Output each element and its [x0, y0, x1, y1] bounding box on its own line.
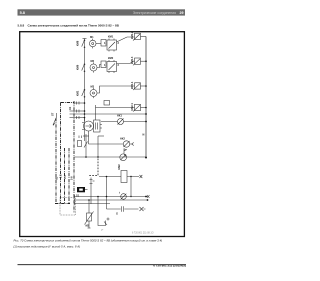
- aux contact K1a: [101, 40, 106, 47]
- svg-text:t: t: [119, 191, 120, 195]
- svg-text:КМ2: КМ2: [76, 90, 80, 96]
- svg-text:29: 29: [180, 11, 184, 15]
- svg-text:М2: М2: [86, 224, 90, 228]
- wire sensor B1: [101, 121, 146, 123]
- node j3: [97, 196, 147, 198]
- svg-text:КМ9: КМ9: [76, 64, 80, 70]
- capacitor box C1: [94, 114, 101, 132]
- aux contact K2a: [101, 61, 106, 68]
- connector frame dotted: [60, 198, 76, 216]
- ground t label: [102, 228, 104, 232]
- svg-text:НК2: НК2: [120, 137, 125, 141]
- svg-text:G: G: [116, 212, 118, 216]
- svg-text:t°: t°: [102, 228, 104, 232]
- wire relay1 to fuse contact: [117, 37, 135, 42]
- contact KM2.1: [133, 104, 141, 111]
- svg-text:НК1: НК1: [117, 114, 122, 118]
- pump M1: [89, 39, 96, 49]
- wire row4: [96, 107, 135, 109]
- wire earth branch: [98, 197, 110, 226]
- wire row3 to contact: [97, 86, 135, 93]
- svg-text:М2: М2: [91, 59, 95, 63]
- svg-text:ST: ST: [51, 112, 55, 116]
- wire contact3 to bus: [141, 85, 147, 87]
- control unit dashed edge: [88, 159, 98, 176]
- wire terminal row y117.5: [70, 116, 85, 119]
- wire v95.5: [95, 105, 97, 114]
- wire bottom row L: [75, 195, 150, 198]
- figure id: [132, 233, 154, 235]
- caption line 1: [13, 238, 163, 248]
- wire capacitor row: [107, 208, 139, 210]
- wire bottom row N2: [75, 202, 111, 205]
- svg-text:КМ1.1: КМ1.1: [130, 81, 134, 89]
- svg-text:3 4: 3 4: [63, 175, 67, 179]
- wire coil row: [99, 175, 142, 209]
- wire contact4 to bus: [141, 107, 147, 109]
- switch external ST: [53, 113, 57, 126]
- varistor RU: [85, 200, 94, 228]
- connector X2 small: [104, 101, 110, 106]
- svg-text:6 720 801 211-08.1O: 6 720 801 211-08.1O: [132, 233, 154, 235]
- svg-text:Схема электрических соединений: Схема электрических соединений котла The…: [28, 24, 120, 28]
- svg-text:6 720 801 211 (2015/02): 6 720 801 211 (2015/02): [153, 263, 186, 267]
- node bus junctions: [145, 60, 147, 158]
- svg-text:N: N: [143, 133, 145, 137]
- wire terminal row y111: [70, 110, 85, 113]
- switch QM2 row2: [82, 64, 85, 72]
- svg-text:КМ2: КМ2: [117, 164, 121, 170]
- wire main left vertical bus: [83, 39, 87, 142]
- svg-text:X1: X1: [68, 106, 72, 110]
- node j1: [85, 156, 99, 158]
- svg-text:КМ2: КМ2: [108, 56, 114, 60]
- wire contact2 to bus: [141, 60, 147, 62]
- svg-text:1 2: 1 2: [59, 174, 63, 178]
- switch QM3 row3: [82, 89, 85, 97]
- svg-text:КМ2.1: КМ2.1: [130, 103, 134, 111]
- sensor B4: [121, 194, 127, 200]
- svg-text:S1: S1: [76, 194, 80, 198]
- wire row1 to relay K1: [96, 43, 101, 45]
- relay K1: [107, 39, 117, 52]
- earth arrow: [140, 207, 146, 211]
- terminal strip dash-dot boundary: [55, 101, 74, 213]
- svg-text:КМ8: КМ8: [76, 40, 80, 46]
- sensor B2: [123, 141, 129, 147]
- wire sensor B2: [89, 143, 134, 146]
- header bar: [18, 9, 186, 15]
- wire contact1 to bus: [141, 36, 147, 38]
- pump M2: [90, 62, 97, 72]
- wire right bus N: [145, 37, 147, 158]
- svg-text:М1: М1: [90, 35, 94, 39]
- svg-text:Электрические соединения: Электрические соединения: [133, 11, 176, 15]
- wire pump terminals: [79, 123, 102, 139]
- wire relay2 to contact: [117, 61, 135, 63]
- svg-text:[1] насосная подстанция (t°: [1] насосная подстанция (t° выход 5 А, м…: [13, 245, 81, 249]
- svg-text:5.8.8: 5.8.8: [18, 24, 25, 28]
- ignition unit: [78, 134, 90, 157]
- pump M4 circulation: [84, 118, 94, 132]
- relay K2: [107, 60, 117, 73]
- figure frame: [20, 32, 185, 237]
- svg-text:5 6: 5 6: [70, 176, 74, 180]
- svg-text:КМ1.2: КМ1.2: [130, 31, 134, 39]
- wire row2 to relay K2: [97, 65, 101, 68]
- node main-line junctions: [84, 102, 86, 118]
- contact KM1.1: [133, 83, 141, 90]
- contact KM1.3: [133, 58, 141, 65]
- svg-text:М3: М3: [91, 85, 95, 89]
- capacitor C2: [121, 206, 123, 212]
- switch QM1 row1: [82, 40, 85, 48]
- svg-text:X2: X2: [55, 176, 59, 180]
- wire long row y114: [70, 113, 147, 115]
- wire coil to bottom: [130, 177, 132, 197]
- sensor B3 flue: [120, 149, 127, 161]
- fuse holder bold: [77, 187, 88, 192]
- svg-text:КМ1.3: КМ1.3: [130, 56, 134, 64]
- section heading 5.8.8: [18, 24, 120, 28]
- wire mid h157: [75, 136, 147, 157]
- wire terminal row y103: [75, 102, 85, 105]
- node j4: [88, 199, 148, 201]
- svg-text:5.8: 5.8: [20, 11, 25, 15]
- relay coil KM2: [121, 171, 127, 183]
- sensor B1: [118, 119, 124, 125]
- label strip: [51, 31, 145, 227]
- svg-text:Рис. 70 Схема электрических: Рис. 70 Схема электрических соединений к…: [14, 238, 163, 242]
- node j2b: [130, 176, 131, 197]
- pump M3: [90, 88, 97, 98]
- footer rule: [18, 263, 187, 267]
- wire v91: [90, 178, 95, 205]
- wire pump bottom: [88, 131, 90, 144]
- svg-text:КМ1: КМ1: [108, 35, 114, 39]
- node j2: [106, 176, 108, 178]
- contact KM1.2: [133, 33, 141, 40]
- wire bottom row mid: [75, 199, 148, 202]
